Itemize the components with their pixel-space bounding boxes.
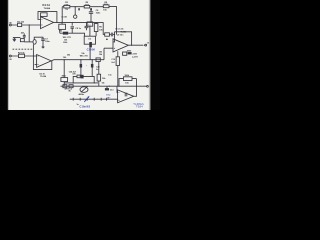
svg-text:C10n/63: C10n/63 xyxy=(80,105,91,108)
svg-text:IC1:B: IC1:B xyxy=(62,17,68,19)
svg-text:2u2: 2u2 xyxy=(111,62,114,64)
svg-text:C13: C13 xyxy=(110,89,114,91)
svg-text:=15V: =15V xyxy=(132,53,137,55)
svg-text:4066: 4066 xyxy=(127,49,131,52)
svg-text:IC1:C 41: IC1:C 41 xyxy=(116,27,125,30)
svg-text:TL084: TL084 xyxy=(44,7,51,10)
svg-text:C9 1u: C9 1u xyxy=(75,28,81,30)
svg-text:TL084: TL084 xyxy=(121,30,128,33)
svg-text:C12/96: C12/96 xyxy=(87,48,96,51)
svg-text:1%: 1% xyxy=(65,9,68,11)
svg-text:(+15V: (+15V xyxy=(132,56,138,58)
svg-text:1n5: 1n5 xyxy=(108,74,111,76)
svg-text:R1 10k: R1 10k xyxy=(17,21,24,23)
svg-text:T084: T084 xyxy=(136,105,143,109)
svg-text:IC1:A1: IC1:A1 xyxy=(42,4,50,7)
svg-text:1Vw: 1Vw xyxy=(106,95,111,97)
svg-text:100n: 100n xyxy=(45,41,50,43)
svg-text:TL084: TL084 xyxy=(40,75,47,78)
svg-text:R2 10k: R2 10k xyxy=(18,53,25,55)
svg-text:100n: 100n xyxy=(96,13,101,15)
svg-text:C9 10n: C9 10n xyxy=(117,35,124,37)
svg-text:400Hz: 400Hz xyxy=(79,93,85,96)
svg-text:WK-1 TD: WK-1 TD xyxy=(80,55,89,57)
svg-text:4k7: 4k7 xyxy=(21,32,24,35)
